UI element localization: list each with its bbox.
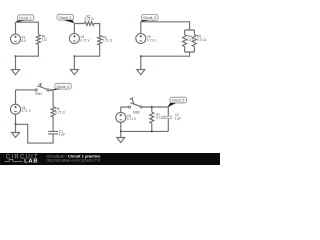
svg-text:0.71 V: 0.71 V <box>127 117 137 121</box>
svg-text:0.71 Ω: 0.71 Ω <box>55 110 65 114</box>
ground c5 <box>117 138 125 143</box>
wire to ground <box>15 56 17 69</box>
label box Circuit_3 <box>142 15 159 21</box>
svg-text:Circuit_4: Circuit_4 <box>57 85 70 89</box>
wire: circuit 4 top/left <box>16 90 54 107</box>
wire to ground <box>15 124 17 132</box>
wire to ground <box>120 131 122 137</box>
switch SW2 <box>128 98 142 108</box>
wire: parallel loop c3 <box>185 30 195 52</box>
node: junction c5 R7 bottom <box>151 130 153 132</box>
node: junction c3 <box>140 55 142 57</box>
ground c1 <box>12 70 20 75</box>
wire: circuit 3 main loop <box>141 22 190 56</box>
wire: C1 to bottom and back to junction <box>16 124 54 143</box>
svg-text:Circuit_2: Circuit_2 <box>59 16 72 20</box>
label V4 0.71 V <box>22 106 32 113</box>
wire: source to junction <box>120 122 122 131</box>
svg-text:0.71 V: 0.71 V <box>80 38 90 42</box>
svg-text:http://circuitlab.com/c/g2adbc: http://circuitlab.com/c/g2adbc776 <box>47 159 101 163</box>
wire: C2 branch <box>167 114 169 131</box>
resistor R2 (horizontal) <box>85 22 95 26</box>
svg-text:LAB: LAB <box>24 159 38 165</box>
resistor R3 <box>98 35 102 45</box>
voltage source V2 <box>69 34 79 44</box>
label R5 0.71 Ohm <box>197 35 207 42</box>
svg-text:0.71 Ω: 0.71 Ω <box>197 38 207 42</box>
label flag <box>140 20 148 22</box>
node: junction c1 <box>15 55 17 57</box>
wire: source to junction <box>15 114 17 124</box>
svg-text:1 µF: 1 µF <box>175 116 181 120</box>
label V3 0.71 V <box>147 35 157 42</box>
label R1 1 Ohm <box>42 35 48 42</box>
capacitor C2 (light) <box>162 116 173 118</box>
resistor R7 <box>150 112 154 123</box>
label C2 1 uF <box>175 113 181 120</box>
wire: circuit 5 top/left <box>121 107 169 114</box>
label R2 0.71 Ohm <box>84 14 94 21</box>
label box Circuit_1 <box>17 15 34 21</box>
ground c2 <box>70 70 78 75</box>
label box Circuit_2 <box>57 14 74 20</box>
label R7 0.71 Ohm <box>156 113 166 120</box>
voltage source V1 <box>11 34 21 44</box>
svg-text:0.71 Ω: 0.71 Ω <box>103 39 113 43</box>
node: R7 top junction <box>151 106 153 108</box>
label box Circuit_4 <box>55 83 72 89</box>
label flag <box>167 103 176 108</box>
voltage source V3 <box>136 34 146 44</box>
wire: circuit 1 loop <box>16 22 39 56</box>
svg-text:Circuit_1: Circuit_1 <box>19 16 32 20</box>
svg-text:1 µF: 1 µF <box>59 133 65 137</box>
label box Circuit_5 <box>170 97 187 103</box>
label R6 0.71 Ohm <box>55 107 65 114</box>
node: junction c5 source <box>120 130 122 132</box>
label R4 0.14 Ohm <box>187 35 193 42</box>
label flag <box>63 20 75 23</box>
node: junction c4 <box>15 123 17 125</box>
resistor R1 <box>36 35 40 45</box>
wire: R7 branch <box>151 107 153 131</box>
wire to ground <box>73 56 75 69</box>
svg-text:1 Ω: 1 Ω <box>42 38 48 42</box>
wire: circuit 2 loop <box>74 24 99 57</box>
resistor R6 <box>51 107 55 117</box>
svg-text:SW1: SW1 <box>35 92 42 96</box>
label C1 1 uF <box>59 129 65 136</box>
node: junction c2 <box>73 55 75 57</box>
svg-text:Circuit_5: Circuit_5 <box>172 99 185 103</box>
capacitor C1 <box>48 131 58 134</box>
logo trace glyph <box>5 159 23 161</box>
resistor R5 <box>192 35 196 47</box>
ground c3 <box>137 70 145 75</box>
svg-text:Circuit_3: Circuit_3 <box>143 16 156 20</box>
wire: bottom rail c5 <box>121 130 169 132</box>
wire to ground <box>140 56 142 69</box>
voltage source V5 <box>116 112 126 122</box>
ground c4 <box>12 133 20 138</box>
resistor R4 <box>183 35 187 47</box>
voltage source V4 <box>11 104 21 114</box>
label V2 0.71 V <box>80 35 90 42</box>
label flag <box>48 89 61 92</box>
wire: R6 to C1 <box>52 117 54 131</box>
svg-text:0.71 Ω: 0.71 Ω <box>84 17 94 21</box>
label flag <box>15 20 25 23</box>
svg-text:0.71 V: 0.71 V <box>22 109 32 113</box>
label V1 5 V <box>22 36 28 43</box>
label R3 0.71 Ohm <box>103 35 113 42</box>
label V5 0.71 V <box>127 114 137 121</box>
switch SW1 <box>35 84 49 92</box>
svg-text:0.71 V: 0.71 V <box>147 38 157 42</box>
svg-text:SW2: SW2 <box>133 111 140 115</box>
